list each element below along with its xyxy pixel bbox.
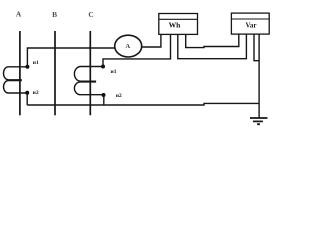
wire: bottom common wire to ground (with jog) bbox=[27, 103, 259, 105]
ammeter PA1 bbox=[115, 35, 142, 57]
svg-text:C: C bbox=[88, 10, 93, 19]
svg-text:и1: и1 bbox=[33, 60, 39, 66]
wire: Wh lead4 to Var lead1 (with jog) bbox=[186, 34, 239, 48]
bus line B bbox=[54, 31, 56, 115]
svg-text:и2: и2 bbox=[33, 90, 39, 96]
svg-text:A: A bbox=[125, 43, 130, 50]
meter box Wh bbox=[159, 14, 198, 35]
bus line C bbox=[89, 31, 91, 115]
node s1 of T2 bbox=[101, 65, 105, 69]
wire: CT2 s2 drop bbox=[103, 95, 105, 105]
svg-text:и2: и2 bbox=[116, 93, 122, 99]
ground bbox=[250, 117, 268, 119]
meter box Var bbox=[231, 13, 269, 34]
svg-text:Wh: Wh bbox=[169, 21, 182, 30]
node s2 of T2 bbox=[102, 93, 106, 97]
svg-text:A: A bbox=[16, 9, 22, 18]
wire: ammeter to Wh lead1 bbox=[141, 34, 161, 47]
svg-text:Var: Var bbox=[245, 21, 256, 29]
wire: Var lead3 jog to ground lead bbox=[254, 34, 259, 61]
wire: Wh lead3 to Var lead2 bbox=[178, 34, 247, 59]
node s2 of T1 bbox=[25, 91, 29, 95]
current transformer T2 secondary coil bbox=[74, 67, 103, 95]
wire: CT1 s2 drop bbox=[26, 93, 28, 105]
node s1 of T1 bbox=[25, 65, 29, 69]
wire: Var lead4 down to ground bbox=[258, 34, 260, 118]
svg-text:и1: и1 bbox=[111, 69, 117, 75]
wire: CT2 s1 riser to Wh lead2 bbox=[103, 34, 171, 66]
current transformer T1 secondary coil bbox=[3, 67, 27, 93]
svg-text:B: B bbox=[52, 10, 57, 19]
bus line A bbox=[19, 31, 21, 115]
wire: CT1 s1 riser to ammeter bbox=[27, 48, 115, 67]
